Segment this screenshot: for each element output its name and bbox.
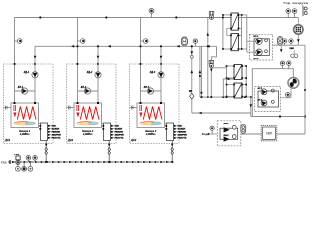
svg-text:КД-1: КД-1 — [24, 71, 30, 74]
svg-text:ДК1: ДК1 — [4, 138, 11, 142]
svg-text:Вода: Вода — [202, 133, 209, 136]
svg-text:КД-3: КД-3 — [150, 71, 156, 74]
svg-text:КН-1: КН-1 — [224, 123, 230, 125]
svg-text:РАБОТА: РАБОТА — [52, 137, 61, 140]
svg-text:ПЗК: ПЗК — [115, 126, 120, 128]
svg-text:КЛ-2: КЛ-2 — [81, 86, 87, 89]
svg-text:ДК3: ДК3 — [130, 138, 137, 142]
svg-text:ФАКЕЛ: ФАКЕЛ — [115, 128, 123, 131]
svg-text:АГ-2: АГ-2 — [258, 98, 264, 101]
svg-text:2,0МВт: 2,0МВт — [145, 133, 156, 136]
svg-text:ПЗК: ПЗК — [52, 126, 57, 128]
svg-text:ПЗК: ПЗК — [178, 126, 183, 128]
svg-text:КД-2: КД-2 — [87, 71, 93, 74]
svg-text:РЕЖИМ: РЕЖИМ — [178, 132, 186, 134]
svg-text:АВАРИЯ: АВАРИЯ — [115, 134, 125, 137]
svg-text:РЕЖИМ: РЕЖИМ — [52, 132, 60, 134]
svg-text:АВАРИЯ: АВАРИЯ — [178, 134, 188, 137]
svg-text:АГ-1: АГ-1 — [258, 87, 264, 90]
svg-text:ФАКЕЛ: ФАКЕЛ — [178, 128, 186, 131]
svg-text:2,0МВт: 2,0МВт — [19, 133, 30, 136]
svg-text:АВАРИЯ: АВАРИЯ — [52, 134, 62, 137]
svg-text:РЕЖИМ: РЕЖИМ — [115, 132, 123, 134]
svg-text:КВ: КВ — [189, 91, 192, 93]
svg-text:КН-2: КН-2 — [224, 135, 230, 137]
svg-text:2,0МВт: 2,0МВт — [82, 133, 93, 136]
svg-text:КВО: КВО — [290, 48, 295, 50]
svg-text:ГАЗ: ГАЗ — [1, 160, 7, 164]
svg-text:ХВП: ХВП — [266, 132, 273, 136]
svg-text:КЛ-3: КЛ-3 — [144, 86, 150, 89]
svg-text:ФАКЕЛ: ФАКЕЛ — [52, 128, 60, 131]
svg-text:КЛ-1: КЛ-1 — [18, 86, 24, 89]
svg-text:РАБОТА: РАБОТА — [178, 137, 187, 140]
svg-text:ДК2: ДК2 — [67, 138, 74, 142]
svg-text:КС-2: КС-2 — [254, 58, 260, 60]
svg-text:Гор. воздуха: Гор. воздуха — [284, 1, 309, 5]
svg-text:КС-1: КС-1 — [254, 36, 260, 38]
svg-text:РАБОТА: РАБОТА — [115, 137, 124, 140]
